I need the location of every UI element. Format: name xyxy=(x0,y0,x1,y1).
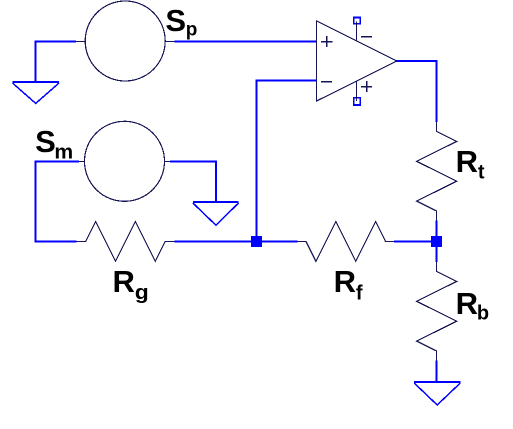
label Rf xyxy=(334,264,363,305)
svg-text:R: R xyxy=(113,264,135,299)
label Rt xyxy=(456,144,485,184)
svg-text:S: S xyxy=(35,124,56,159)
wire Sp to op-amp + input xyxy=(175,41,317,43)
node N2 xyxy=(431,236,442,247)
svg-text:g: g xyxy=(135,282,149,304)
wire Rt to node xyxy=(436,220,438,237)
wire Rf to node N1 xyxy=(262,241,298,243)
wire op-amp output to Rt xyxy=(397,61,437,122)
ground (Rb) xyxy=(414,382,460,405)
voltage source Sp xyxy=(76,1,175,81)
svg-text:p: p xyxy=(186,20,198,41)
resistor Rb xyxy=(417,262,457,360)
svg-text:R: R xyxy=(456,286,478,321)
label Sp xyxy=(165,3,197,41)
node N1 xyxy=(251,236,262,247)
label Rb xyxy=(456,286,490,325)
svg-text:b: b xyxy=(477,303,489,325)
op-amp power pin V- (bottom square) xyxy=(353,81,372,106)
resistor Rf xyxy=(298,222,395,262)
svg-text:S: S xyxy=(165,3,186,38)
resistor Rg xyxy=(76,222,174,262)
ground (Sp) xyxy=(13,82,60,103)
wire node N1 to Rg xyxy=(175,241,252,243)
wire Sp left to ground xyxy=(36,42,77,82)
svg-text:m: m xyxy=(54,141,73,163)
svg-text:t: t xyxy=(478,162,485,184)
svg-text:R: R xyxy=(456,144,478,179)
voltage source Sm xyxy=(79,121,170,201)
ground (Sm) xyxy=(193,202,239,225)
wire node N2 to Rf xyxy=(394,241,431,243)
label Rg xyxy=(113,264,149,304)
wire node N2 to Rb xyxy=(436,246,438,262)
wire node N1 to op-amp - input xyxy=(257,81,317,237)
wire Rg to Sm xyxy=(36,162,80,242)
wire Rb to ground xyxy=(436,360,438,381)
svg-text:R: R xyxy=(334,264,356,299)
label Sm xyxy=(35,124,73,163)
svg-text:f: f xyxy=(356,283,363,305)
resistor Rt xyxy=(417,122,457,220)
op-amp U1 xyxy=(317,21,397,101)
wire Sm right to ground xyxy=(170,162,216,202)
op-amp power pin V+ (top square) xyxy=(353,17,372,41)
